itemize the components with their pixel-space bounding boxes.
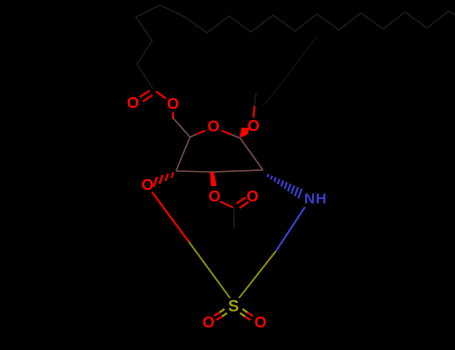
bond C5-O5 ring (190, 134, 197, 137)
wire: anomeric alkyl faint (263, 36, 317, 106)
hashed wedge C4-O4 (154, 172, 174, 187)
wire: acyl chain (faint) (136, 5, 185, 89)
bond C6-C5 (173, 118, 190, 137)
bond O6-C6 (172, 112, 174, 119)
bond O4-S (S half) (189, 242, 230, 298)
S=O right double bond (240, 309, 253, 320)
bond C4-C5 (176, 137, 190, 171)
wire: acetyl methyl (faint) (233, 208, 235, 228)
bond O3-C(acetyl) (220, 202, 233, 208)
svg-text:O: O (247, 118, 259, 135)
bond O5-C1 (222, 131, 232, 135)
svg-text:O: O (254, 314, 266, 331)
hashed wedge C2-N (268, 174, 302, 198)
bond O4-S (O half) (152, 192, 189, 242)
wedge C3-O3 (bold) (210, 172, 217, 186)
bond C1-C2 (240, 138, 263, 170)
wire: long alkyl chain (faint) (185, 11, 455, 33)
bond O1-CH3 (254, 106, 255, 118)
svg-text:O: O (127, 95, 139, 112)
svg-text:O: O (207, 118, 219, 135)
svg-text:O: O (167, 96, 179, 113)
carbonyl C=O double bond (ester on C6) (140, 91, 153, 102)
svg-text:O: O (246, 188, 258, 205)
bond C2-C3 (212, 170, 263, 172)
bond C3-C4 (176, 171, 212, 172)
svg-text:O: O (141, 177, 153, 194)
acetyl C=O double bond (237, 198, 249, 209)
S=O left double bond (214, 309, 227, 320)
svg-text:O: O (208, 188, 220, 205)
svg-text:S: S (228, 298, 239, 316)
svg-text:O: O (202, 314, 214, 331)
bond N-S (blue half) (276, 207, 305, 251)
svg-text:H: H (316, 191, 327, 208)
wire: methyl continuation (faint) (255, 93, 257, 106)
wedge C1-O1 (bold) (240, 128, 250, 139)
bond N-S (S half) (239, 251, 276, 298)
svg-text:N: N (304, 191, 315, 208)
bond C(=O)-O ester (156, 92, 166, 99)
